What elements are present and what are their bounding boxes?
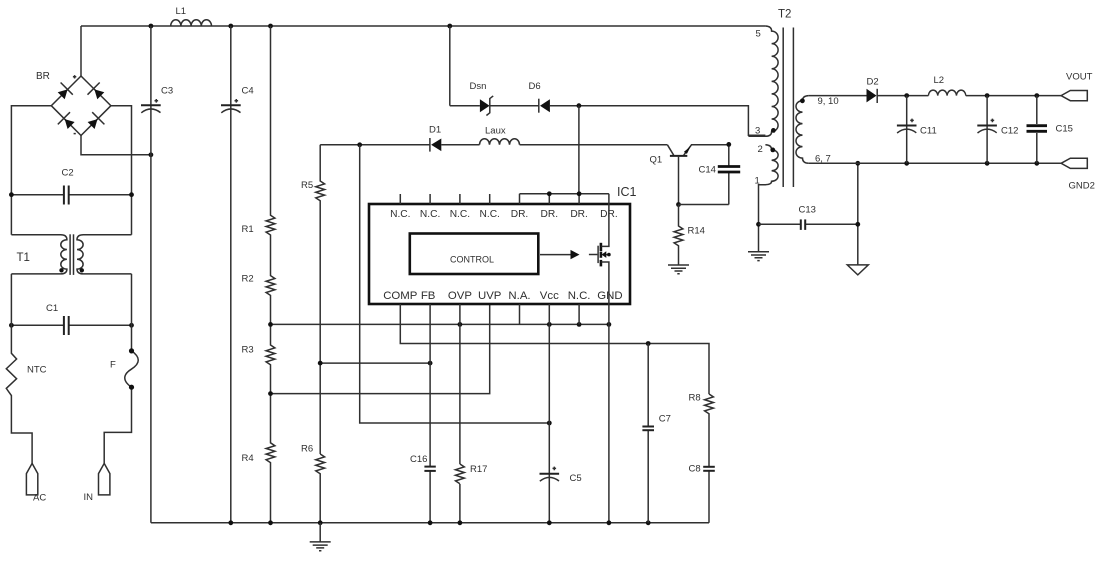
- svg-text:DR.: DR.: [511, 209, 529, 220]
- svg-text:N.C.: N.C.: [568, 290, 591, 302]
- capacitor C11: [897, 96, 937, 164]
- svg-text:1: 1: [755, 176, 760, 187]
- node junction R3/R4: [268, 391, 273, 396]
- wire D1 feed rail: [320, 144, 667, 146]
- svg-text:F: F: [110, 360, 116, 371]
- node junction rail R6: [318, 520, 323, 525]
- svg-text:D6: D6: [529, 81, 541, 92]
- svg-text:R17: R17: [470, 464, 487, 475]
- wire bridge right lead to right rail: [111, 106, 132, 235]
- IC1 top pin labels: [390, 209, 618, 220]
- capacitor C14: [699, 144, 741, 205]
- node junction DR stub 7: [577, 191, 582, 196]
- inductor Laux: [480, 126, 520, 145]
- wire NC bottom stub: [578, 304, 580, 324]
- capacitor C12: [977, 96, 1018, 164]
- node junction C15 bottom: [1034, 161, 1039, 166]
- svg-text:Q1: Q1: [650, 155, 663, 166]
- svg-text:R8: R8: [689, 393, 701, 404]
- resistor NTC: [6, 274, 46, 464]
- wire NA stub: [519, 304, 521, 324]
- node junction snubber to DR: [577, 103, 582, 108]
- svg-text:C15: C15: [1056, 124, 1073, 135]
- svg-text:5: 5: [756, 29, 761, 40]
- svg-text:Vcc: Vcc: [540, 290, 559, 302]
- node phase dot pin2: [770, 148, 775, 153]
- wire top rail: [81, 25, 765, 27]
- svg-text:C12: C12: [1001, 126, 1018, 137]
- svg-text:DR.: DR.: [541, 209, 559, 220]
- svg-text:R1: R1: [242, 224, 254, 235]
- wire T2 pin1 to ground: [758, 224, 760, 252]
- CONTROL block: [410, 234, 539, 275]
- wire base to C14 bottom: [679, 204, 729, 206]
- svg-text:C7: C7: [659, 414, 671, 425]
- svg-text:R5: R5: [301, 180, 313, 191]
- wire snubber rail: [450, 106, 766, 136]
- svg-text:C1: C1: [46, 303, 58, 314]
- wire snubber drop: [449, 26, 451, 106]
- svg-text:OVP: OVP: [448, 290, 472, 302]
- svg-text:C11: C11: [920, 126, 937, 137]
- node junction pin1/C13: [756, 222, 761, 227]
- svg-text:R3: R3: [242, 345, 254, 356]
- wire OVP line: [459, 304, 461, 523]
- node junction GND pin: [607, 322, 612, 327]
- diode BR bottom-right: [88, 119, 98, 129]
- node junction rail GND: [607, 520, 612, 525]
- transformer T2: [748, 9, 838, 225]
- node junction rail C7: [646, 520, 651, 525]
- svg-text:UVP: UVP: [478, 290, 501, 302]
- node phase dot pin 9,10: [800, 98, 805, 103]
- fuse F: [104, 274, 138, 464]
- svg-text:L1: L1: [176, 6, 187, 17]
- node junction Q1 base/C14: [676, 202, 681, 207]
- wire output top 9,10: [809, 95, 1061, 97]
- node junction top rail at C4: [228, 24, 233, 29]
- wire bridge bottom lead to C3 rail: [81, 136, 151, 155]
- wire DR tie: [520, 194, 609, 204]
- node phase dot pin3: [771, 128, 776, 133]
- capacitor C16: [410, 454, 436, 471]
- svg-text:C4: C4: [242, 86, 254, 97]
- terminal GND2: [1061, 158, 1095, 191]
- svg-text:L2: L2: [934, 75, 945, 86]
- node junction C15 top: [1034, 93, 1039, 98]
- wire output bottom 6,7: [809, 162, 1061, 164]
- svg-text:N.C.: N.C.: [390, 209, 410, 220]
- node junction C12 top: [985, 93, 990, 98]
- node junction C13 right: [855, 222, 860, 227]
- wire UVP divider tap: [271, 304, 490, 394]
- svg-text:AC: AC: [33, 493, 46, 504]
- capacitor C4: [221, 26, 254, 523]
- svg-text:IN: IN: [84, 492, 94, 503]
- wire GND line: [608, 304, 610, 523]
- diode D1: [429, 125, 441, 152]
- IC1 bottom pin labels: [383, 290, 622, 302]
- capacitor C3: [141, 26, 173, 523]
- svg-text:C14: C14: [699, 165, 716, 176]
- resistor chain R1 R2 R3 R4: [242, 26, 275, 523]
- svg-text:N.C.: N.C.: [480, 209, 500, 220]
- IC1 outer box: [369, 185, 637, 304]
- svg-text:C8: C8: [689, 464, 701, 475]
- T2 core: [782, 28, 784, 188]
- node junction C11 top: [904, 93, 909, 98]
- capacitor C7: [642, 344, 671, 523]
- capacitor C1: [11, 303, 131, 335]
- node junction C14 top: [726, 142, 731, 147]
- ground main rail: [310, 523, 331, 551]
- node junction rail OVP: [458, 520, 463, 525]
- svg-text:D2: D2: [867, 77, 879, 88]
- svg-text:C16: C16: [410, 454, 427, 465]
- wire R6 to FB: [320, 362, 430, 364]
- svg-text:FB: FB: [421, 290, 436, 302]
- node junction C2 right: [129, 192, 134, 197]
- svg-text:C13: C13: [799, 205, 816, 216]
- capacitor C2: [11, 168, 131, 205]
- node junction C11 bottom: [904, 161, 909, 166]
- node junction R2/R3: [268, 322, 273, 327]
- svg-text:BR: BR: [36, 71, 50, 82]
- node junction top rail at R1: [268, 24, 273, 29]
- resistor R6: [301, 444, 325, 523]
- svg-text:3: 3: [755, 126, 760, 137]
- terminal AC: [26, 463, 46, 503]
- svg-text:C5: C5: [570, 473, 582, 484]
- transistor MOSFET internal: [589, 204, 611, 304]
- node junction rail Vcc: [547, 520, 552, 525]
- transistor Q1: [650, 145, 729, 205]
- terminal VOUT: [1061, 72, 1092, 101]
- capacitor C15: [1027, 96, 1073, 164]
- svg-text:Laux: Laux: [485, 126, 506, 137]
- svg-text:R6: R6: [301, 444, 313, 455]
- node junction top rail at C3: [149, 24, 154, 29]
- node junction C2 left: [9, 192, 14, 197]
- resistor R14: [674, 205, 705, 266]
- diode BR top-left: [58, 89, 68, 99]
- resistor R8: [689, 393, 714, 467]
- node junction C12 bottom: [985, 161, 990, 166]
- node junction rail R4: [268, 520, 273, 525]
- node junction C7 top: [646, 341, 651, 346]
- svg-text:DR.: DR.: [570, 209, 588, 220]
- wire drop to Vcc: [360, 145, 550, 423]
- diode D6: [529, 81, 550, 113]
- node junction FB line tap: [428, 361, 433, 366]
- node junction C3 line / bridge minus: [149, 152, 154, 157]
- op-amp arrow control to gate: [540, 250, 580, 259]
- wire OVP divider tap: [271, 323, 609, 325]
- svg-text:R2: R2: [242, 274, 254, 285]
- bridge rectifier BR: [36, 71, 111, 136]
- svg-text:2: 2: [758, 144, 763, 155]
- wire FB line: [429, 304, 431, 523]
- resistor R5: [301, 145, 325, 454]
- svg-text:VOUT: VOUT: [1066, 72, 1093, 83]
- diode D2: [867, 77, 879, 104]
- node junction DR stub 6: [547, 191, 552, 196]
- node junction rail C4: [228, 520, 233, 525]
- svg-text:N.A.: N.A.: [508, 290, 530, 302]
- capacitor C8: [689, 464, 715, 523]
- T2 secondary winding 9,10-6,7: [796, 96, 809, 164]
- svg-text:C3: C3: [161, 86, 173, 97]
- svg-text:R4: R4: [242, 453, 254, 464]
- wire COMP route: [400, 304, 709, 394]
- capacitor C5: [540, 467, 582, 484]
- terminal IN: [84, 463, 110, 503]
- svg-text:T2: T2: [778, 9, 791, 21]
- node junction rail FB: [428, 520, 433, 525]
- ground T2 pin1: [748, 252, 769, 261]
- transformer T1: [11, 234, 131, 275]
- node junction C1 left: [9, 323, 14, 328]
- wire DR drop: [578, 106, 580, 194]
- wire bridge top lead: [80, 26, 82, 76]
- node junction top rail at snubber: [447, 24, 452, 29]
- svg-text:T1: T1: [17, 252, 30, 264]
- svg-text:N.C.: N.C.: [420, 209, 440, 220]
- svg-text:N.C.: N.C.: [450, 209, 470, 220]
- diode BR bottom-left: [65, 119, 75, 129]
- inductor L1: [171, 6, 212, 26]
- svg-text:R14: R14: [688, 226, 705, 237]
- node junction Vcc crossing: [547, 322, 552, 327]
- svg-text:9, 10: 9, 10: [818, 96, 839, 107]
- ground triangle secondary: [847, 265, 868, 275]
- node junction Vcc feed: [547, 421, 552, 426]
- svg-text:Dsn: Dsn: [470, 81, 487, 92]
- node junction D1 rail drop: [357, 142, 362, 147]
- node junction 6,7 rail: [855, 161, 860, 166]
- wire secondary return drop: [857, 163, 859, 265]
- svg-text:D1: D1: [429, 125, 441, 136]
- diode BR top-right: [94, 89, 104, 99]
- svg-text:IC1: IC1: [617, 185, 637, 199]
- svg-text:C2: C2: [62, 168, 74, 179]
- diode Dsn zener: [470, 81, 494, 116]
- svg-text:GND: GND: [597, 290, 622, 302]
- svg-text:CONTROL: CONTROL: [450, 255, 494, 265]
- pin stubs top NC: [400, 194, 489, 204]
- capacitor C13: [759, 205, 858, 230]
- ground R14: [668, 265, 689, 274]
- wire bottom rail: [151, 522, 709, 524]
- resistor R17: [456, 464, 488, 484]
- node junction R5R6 line tap: [318, 361, 323, 366]
- wire bridge left lead to left rail: [11, 106, 51, 235]
- svg-text:GND2: GND2: [1069, 181, 1095, 192]
- T2 winding 2-1: [759, 145, 779, 225]
- node junction OVP tap: [458, 322, 463, 327]
- wire Vcc line: [548, 304, 550, 523]
- inductor L2: [928, 75, 965, 96]
- node junction C1 right: [129, 323, 134, 328]
- T2 primary winding 5-3: [748, 26, 778, 136]
- node junction NC pin: [577, 322, 582, 327]
- svg-text:NTC: NTC: [27, 365, 47, 376]
- svg-text:COMP: COMP: [383, 290, 417, 302]
